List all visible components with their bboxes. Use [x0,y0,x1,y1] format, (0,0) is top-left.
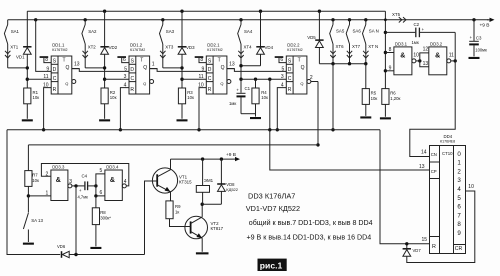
svg-text:+9 В: +9 В [226,152,236,158]
wire VT1 collector to +9V rail [170,159,172,170]
svg-text:4: 4 [457,186,461,193]
ground [250,117,261,119]
svg-text:VD5: VD5 [307,35,316,40]
wire top rail 2 (switch rail to XT5) [8,19,489,21]
svg-text:4: 4 [124,179,127,185]
diode VD4 [259,10,262,13]
svg-text:R: R [432,244,436,250]
wire Q output [227,68,235,70]
svg-text:DD3.3: DD3.3 [52,165,65,170]
wire XT2 to node [85,67,104,69]
resistor R6 [382,89,389,105]
wire XT3 to node [163,67,182,69]
svg-text:&: & [110,177,115,184]
svg-text:1,20к: 1,20к [390,96,400,101]
svg-text:SA5: SA5 [336,28,345,33]
svg-text:4: 4 [281,83,284,89]
svg-text:XT N: XT N [368,44,378,49]
resistor R7 10к [27,145,29,171]
svg-text:1: 1 [457,160,461,167]
diode VD2 [103,10,106,13]
wire to D input [150,69,207,72]
wire R input to common bus [120,88,129,130]
svg-text:1мк: 1мк [412,40,419,45]
resistor R5 10к [365,64,367,89]
ground [469,57,480,59]
wire top rail 1 (+9V diode rail) [27,10,385,12]
svg-text:Q: Q [143,65,147,71]
svg-text:DD1.1: DD1.1 [52,43,65,48]
svg-text:DD2.2: DD2.2 [287,43,300,48]
resistor R9 1к [166,201,173,219]
svg-text:1: 1 [46,191,49,197]
svg-text:C4: C4 [82,174,88,179]
svg-text:10: 10 [468,184,474,190]
wire to D input [34,18,37,21]
wire DD3.1 input pin 9 [384,69,387,72]
svg-text:6: 6 [123,57,126,63]
diode VD1 [26,11,28,47]
svg-text:R1: R1 [33,90,39,95]
svg-text:T: T [63,58,66,64]
svg-text:4,7мк: 4,7мк [78,195,89,200]
wire bus to DD4 R input [380,130,430,244]
wire C4 to DD3.4 inputs [94,184,97,187]
svg-text:SA 13: SA 13 [31,218,43,223]
svg-text:10к: 10к [261,95,268,100]
svg-text:XT6: XT6 [336,44,345,49]
diode VD7 [403,248,411,250]
switch SA5 [331,18,334,21]
svg-text:5: 5 [282,66,285,72]
svg-text:R6: R6 [390,90,396,95]
ground [22,119,33,121]
wire VT2 collector to relay [201,204,203,217]
svg-text:2: 2 [310,75,313,81]
node junctions [239,64,242,67]
diode VD5 [318,10,321,13]
svg-text:Q: Q [143,81,146,86]
svg-text:К176ТМ2: К176ТМ2 [130,48,145,52]
svg-text:R7: R7 [32,172,38,177]
svg-text:DD4: DD4 [444,134,453,139]
wire inverted Q output of DD2.2 [311,81,318,83]
svg-text:D: D [130,67,134,73]
wire node row to C input [241,78,286,80]
wire DD3.2 output pin 11 to C2 and DD4 CN [451,60,455,62]
svg-text:CR: CR [455,246,463,252]
S input common bar [117,56,126,58]
svg-text:R: R [208,87,212,93]
svg-text:9: 9 [457,230,461,237]
diode VD3 [180,10,183,13]
svg-text:R: R [130,87,134,93]
wire to D input [227,69,286,72]
wire Q output [150,68,158,70]
wire DD2.2 C-row to DD4 CP [268,128,271,131]
wire Q(DD2.2)/R7 to trigger [316,143,319,146]
svg-text:К176ИЕ8: К176ИЕ8 [440,139,455,143]
svg-text:T: T [218,58,221,64]
wire R input to common bus [44,88,52,130]
svg-text:8: 8 [200,57,203,63]
svg-text:VD7: VD7 [413,248,422,253]
svg-text:6: 6 [280,57,283,63]
svg-text:10к: 10к [371,96,378,101]
svg-text:XT5: XT5 [392,12,401,17]
svg-text:10к: 10к [32,178,39,183]
svg-text:8: 8 [45,57,48,63]
svg-text:К176ТМ2: К176ТМ2 [287,48,302,52]
transistor VT1 КТ315 [152,168,177,193]
svg-text:К176ТМ2: К176ТМ2 [52,48,67,52]
ground [360,116,371,118]
switch SA13 [27,196,29,213]
svg-text:SA2: SA2 [88,29,97,34]
resistor R8 300к [94,194,97,197]
wire rail1 corner drop to C2 node [384,11,386,88]
svg-text:3: 3 [457,177,461,184]
svg-text:SA1: SA1 [11,29,20,34]
svg-text:5: 5 [100,168,103,174]
wire common bus [7,129,380,131]
wire R input to common bus [199,88,206,130]
svg-text:+9 В: +9 В [480,22,490,28]
svg-text:9: 9 [389,65,392,71]
svg-text:D: D [53,67,57,73]
svg-text:6: 6 [457,204,461,211]
svg-text:R4: R4 [261,90,267,95]
svg-text:D: D [208,67,212,73]
ground [196,252,209,254]
svg-text:T: T [298,58,301,64]
wire bottom row to VT1 base [69,254,144,256]
wire DD3.3 output node [72,185,85,187]
svg-text:10: 10 [198,83,204,89]
svg-text:3: 3 [69,179,72,185]
svg-text:5: 5 [457,195,461,202]
switch SA4 [239,18,242,21]
figure label рис.1 [258,259,287,271]
svg-text:14: 14 [421,150,427,156]
switch SA N [364,18,367,21]
svg-text:VD4: VD4 [265,45,274,50]
svg-text:Q: Q [65,81,68,86]
ground [177,119,188,121]
svg-text:C1: C1 [245,86,251,91]
resistor R1 10к [24,88,31,104]
svg-text:10: 10 [413,52,419,58]
svg-text:CP: CP [431,169,437,174]
svg-text:2: 2 [457,168,461,175]
svg-text:12: 12 [423,47,429,53]
wire XT4 down to node and C1 [240,44,242,79]
wire node to C input [182,78,206,80]
svg-text:8: 8 [389,47,392,53]
svg-text:DD3.2: DD3.2 [430,41,443,46]
svg-text:9: 9 [46,66,49,72]
svg-text:XT3: XT3 [165,44,174,49]
svg-text:11: 11 [43,74,48,80]
wire C row to DD4 CP drop [269,79,271,130]
svg-text:DD3 К176ЛА7: DD3 К176ЛА7 [248,191,295,200]
node C2 left / DD3.1 inputs vertical [384,31,387,34]
svg-text:5: 5 [124,66,127,72]
wire VD5 row [319,63,365,65]
svg-text:1: 1 [152,62,155,68]
ground [23,243,34,245]
svg-text:R5: R5 [371,90,377,95]
resistor R4 10к [255,79,257,88]
ground [380,117,391,119]
svg-text:VD1-VD7 КД522: VD1-VD7 КД522 [246,204,300,213]
svg-text:SA3: SA3 [166,29,175,34]
wire DD3.1 output to DD3.2 inputs [416,60,420,62]
svg-text:+9 В к выв.14 DD1-DD3, к выв 1: +9 В к выв.14 DD1-DD3, к выв 16 DD4 [247,234,372,242]
svg-text:10к: 10к [33,95,40,100]
svg-text:C: C [288,76,292,82]
svg-text:R9: R9 [175,204,181,209]
capacitor C4 4,7мк [84,181,86,190]
svg-text:0: 0 [457,151,461,158]
wire C1 to ground [241,113,256,115]
node junctions [26,66,29,69]
ground [90,247,101,249]
svg-text:1мк: 1мк [229,101,236,106]
svg-text:VD1: VD1 [16,55,25,60]
svg-text:рис.1: рис.1 [260,260,283,270]
svg-text:SA N: SA N [369,28,379,33]
wire relay bottom to VD8 [202,203,221,205]
diode VD8 КД522 [220,157,223,160]
ground [99,119,110,121]
node junctions [180,66,183,69]
wire R input to common bus [277,88,286,130]
svg-text:1к: 1к [175,209,179,214]
svg-text:C: C [208,76,212,82]
svg-text:10: 10 [43,83,49,89]
wire XT6 node to common bus [332,64,334,130]
svg-text:К176ТМ2: К176ТМ2 [207,48,222,52]
wire XT1 to node [8,67,28,69]
svg-text:CT10: CT10 [442,151,453,156]
svg-text:13: 13 [229,62,235,68]
svg-text:VD6: VD6 [57,244,66,249]
svg-text:DD1.2: DD1.2 [130,43,143,48]
svg-text:&: & [56,177,61,184]
wire Q output [72,68,80,70]
svg-text:КТ315: КТ315 [179,179,192,184]
svg-text:13: 13 [74,62,80,68]
wire output 4 (pin 10) loop to R via VD7 [407,191,475,263]
svg-text:КД522: КД522 [226,187,238,192]
relay ЭМ1 coil [201,157,204,160]
svg-text:T: T [140,58,143,64]
svg-text:Q: Q [301,65,305,71]
svg-text:8: 8 [457,221,461,228]
svg-text:R2: R2 [110,90,116,95]
svg-text:9: 9 [202,66,205,72]
svg-text:DD3.4: DD3.4 [106,165,119,170]
node junctions [103,66,106,69]
svg-text:R: R [53,87,57,93]
resistor R3 10к [178,88,185,104]
svg-text:КТ817: КТ817 [211,226,224,231]
switch SA1 [7,20,9,25]
resistor R2 10к [101,88,108,104]
svg-text:Q: Q [300,81,303,86]
wire R9 to VT2 base [170,219,186,227]
svg-text:7: 7 [457,212,461,219]
svg-text:4: 4 [124,83,127,89]
diode VD6 [61,251,63,258]
svg-text:13: 13 [423,61,429,67]
svg-text:XT7: XT7 [352,44,361,49]
wire R7 bottom to DD3.3 pin 1 [27,194,30,197]
svg-text:общий к выв.7 DD1-DD3, к выв 8: общий к выв.7 DD1-DD3, к выв 8 DD4 [249,219,373,227]
svg-text:11: 11 [449,52,454,58]
svg-text:11: 11 [198,74,203,80]
capacitor C3 100мк [472,18,475,21]
svg-text:13: 13 [419,164,425,170]
svg-text:SA4: SA4 [244,29,253,34]
wire DD3.4 output feedback to DD3.3 pin 2 [41,164,128,186]
switch SA3 [161,18,164,21]
svg-text:CN: CN [431,152,437,157]
svg-text:Q: Q [220,81,223,86]
svg-text:Q: Q [66,65,70,71]
svg-text:10к: 10к [110,95,117,100]
svg-text:R3: R3 [187,90,193,95]
wire DD3.1 input pin 8 [384,51,387,54]
svg-text:DD2.1: DD2.1 [207,43,220,48]
wire to D input [72,69,129,72]
svg-text:C2: C2 [414,22,420,27]
svg-text:15: 15 [421,237,427,243]
svg-text:ЭМ1: ЭМ1 [204,178,214,183]
svg-text:3: 3 [281,74,284,80]
S input common bar [275,56,284,58]
svg-text:C: C [131,76,135,82]
svg-text:XT2: XT2 [88,44,97,49]
svg-text:DD3.1: DD3.1 [395,41,408,46]
wire bus left drop to VD6 row [7,130,60,255]
S input common bar [40,56,49,58]
svg-text:SA6: SA6 [353,28,362,33]
svg-text:3: 3 [124,74,127,80]
svg-text:XT1: XT1 [10,44,19,49]
svg-text:10к: 10к [187,95,194,100]
wire VT2 emitter to ground [201,238,203,252]
wire VT1 emitter to R9 [170,192,172,201]
svg-text:&: & [435,53,440,60]
svg-text:VD3: VD3 [186,45,195,50]
wire node to C input [27,78,51,80]
svg-text:VD2: VD2 [109,45,118,50]
capacitor C2 1мк [385,31,415,33]
svg-text:&: & [400,53,405,60]
+9V rail of driver [171,158,233,160]
svg-text:R: R [288,87,292,93]
+9V supply arrow [487,19,491,21]
transistor VT2 КТ817 [185,216,208,239]
svg-text:C3: C3 [476,36,482,41]
svg-text:100мк: 100мк [475,48,487,53]
switch SA2 [84,18,87,21]
svg-text:6: 6 [100,190,103,196]
S input common bar [195,56,204,58]
svg-text:R8: R8 [100,210,106,215]
svg-text:D: D [288,67,292,73]
svg-text:C: C [53,76,57,82]
switch SA6 [348,18,351,21]
svg-text:Q: Q [221,65,225,71]
svg-text:XT4: XT4 [244,44,253,49]
svg-text:300к*: 300к* [100,215,111,220]
capacitor C1 1мк [240,79,242,93]
wire node to C input [105,78,129,80]
